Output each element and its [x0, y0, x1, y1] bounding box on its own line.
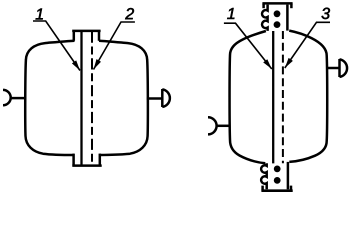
part 1: partition wall solid line (left figure): [80, 32, 82, 166]
callout label 1 (left figure): [36, 8, 43, 19]
arrowhead of leader 1 (right figure): [263, 59, 272, 69]
left vessel body: [25, 41, 74, 155]
part 1: partition wall solid line (right figure): [272, 31, 274, 163]
label 2 leader (left): [94, 22, 135, 70]
right vessel right fitting (D): [328, 67, 339, 70]
right vessel bottom flange block: [261, 163, 267, 189]
right vessel left fitting (open arc): [208, 117, 217, 134]
bottom block bolts: [274, 166, 281, 173]
label 1 leader (left): [33, 21, 80, 71]
arrowhead of leader 2 (left figure): [94, 59, 102, 69]
label 1 leader (right): [224, 23, 272, 69]
callout label 1 (right figure): [227, 8, 234, 19]
callout label 2 (left figure): [125, 8, 134, 19]
arrowhead of leader 3 (right figure): [285, 58, 293, 68]
top block bolts: [274, 10, 281, 17]
right vessel top flange block: [262, 2, 292, 5]
left vessel bottom flange cap: [72, 164, 101, 167]
right vessel body: [230, 31, 266, 163]
left vessel left fitting (open arc): [3, 90, 11, 105]
left vessel top flange cap: [72, 30, 100, 33]
callout label 3 (right figure): [322, 8, 330, 19]
part 2: membrane dashed line (left figure): [91, 32, 93, 166]
label 3 leader (right): [285, 22, 330, 68]
part 3: membrane dashed line (right figure): [282, 31, 284, 163]
left vessel right fitting (D): [147, 97, 162, 100]
arrowhead of leader 1 (left figure): [72, 60, 80, 70]
